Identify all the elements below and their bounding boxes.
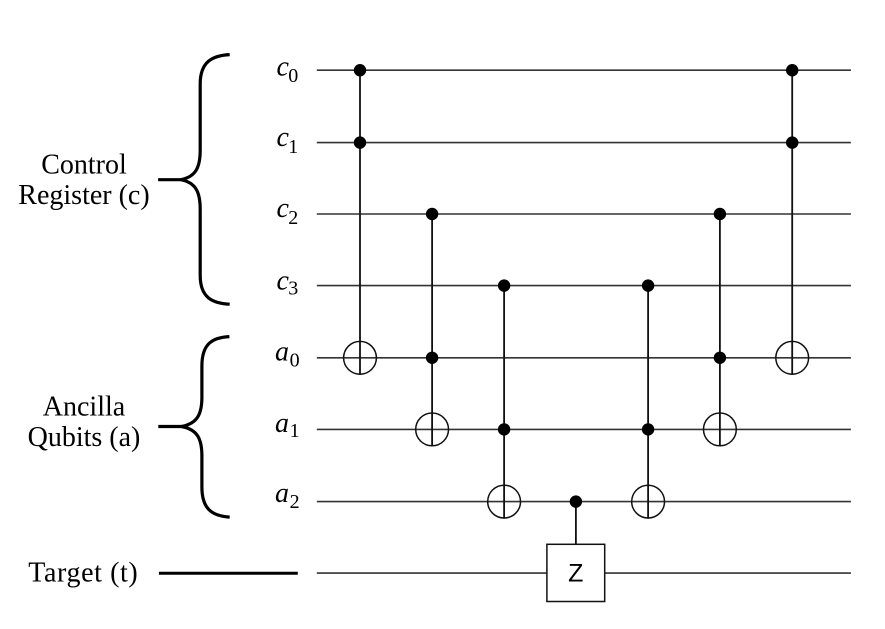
- gate Toffoli G7 vertical line: [791, 70, 793, 375]
- wire a2: [317, 501, 851, 503]
- brace control register: [181, 55, 230, 305]
- wire c0: [317, 69, 851, 71]
- gate G3 control dot on a1: [498, 423, 510, 435]
- brace ancilla qubits: [182, 337, 230, 517]
- gate G6 control dot on c2: [714, 208, 726, 220]
- svg-text:Qubits (a): Qubits (a): [28, 422, 141, 453]
- gate CZ G4 vertical line: [575, 502, 577, 545]
- gate G7 control dot on c0: [786, 64, 798, 76]
- gate G7 control dot on c1: [786, 136, 798, 148]
- gate G2 control dot on c2: [426, 208, 438, 220]
- gate Toffoli G3 vertical line: [503, 286, 505, 519]
- gate G5 control dot on a1: [642, 423, 654, 435]
- gate G1 target oplus on a0: [344, 341, 377, 374]
- label c2: [277, 193, 299, 229]
- gate G3 control dot on c3: [498, 279, 510, 291]
- label c3: [277, 265, 299, 299]
- svg-text:a: a: [275, 478, 289, 509]
- gate Toffoli G5 vertical line: [647, 286, 649, 519]
- gate G2 control dot on a0: [426, 352, 438, 364]
- svg-text:0: 0: [290, 349, 300, 371]
- gate G1 control dot on c1: [354, 136, 366, 148]
- gate G5 control dot on c3: [642, 279, 654, 291]
- svg-text:Z: Z: [568, 560, 583, 588]
- svg-text:Ancilla: Ancilla: [43, 391, 126, 422]
- wire c3: [317, 285, 851, 287]
- gate Toffoli G2 vertical line: [431, 214, 433, 447]
- gate G2 target oplus on a1: [416, 413, 449, 446]
- svg-text:a: a: [275, 337, 289, 368]
- lead line target: [159, 572, 298, 575]
- svg-text:1: 1: [288, 136, 298, 158]
- gate Toffoli G6 vertical line: [719, 214, 721, 447]
- wire c1: [317, 142, 851, 144]
- wire a0: [317, 357, 851, 359]
- wire c2: [317, 213, 851, 215]
- gate G1 control dot on c0: [354, 64, 366, 76]
- svg-text:2: 2: [288, 207, 298, 229]
- wire t: [317, 572, 851, 574]
- gate G6 control dot on a0: [714, 352, 726, 364]
- gate G4 control dot on a2: [570, 495, 582, 507]
- label c0: [277, 52, 299, 87]
- gate G7 target oplus on a0: [776, 341, 809, 374]
- lead line ancilla: [158, 425, 182, 428]
- gate G6 target oplus on a1: [704, 413, 737, 446]
- svg-text:Target (t): Target (t): [28, 558, 138, 589]
- label c1: [277, 122, 299, 158]
- label a1: [275, 408, 300, 442]
- gate G3 target oplus on a2: [488, 485, 521, 518]
- svg-text:Register (c): Register (c): [18, 180, 149, 211]
- wire a1: [317, 428, 851, 430]
- lead line control: [158, 178, 182, 181]
- svg-text:3: 3: [288, 277, 298, 299]
- svg-text:Control: Control: [41, 150, 127, 181]
- svg-text:a: a: [275, 408, 289, 439]
- gate G4 Z box on t: [547, 544, 605, 601]
- svg-text:1: 1: [290, 420, 300, 442]
- gate Toffoli G1 vertical line: [359, 70, 361, 375]
- label a0: [275, 337, 300, 372]
- svg-text:2: 2: [290, 491, 300, 513]
- gate G5 target oplus on a2: [632, 485, 665, 518]
- svg-text:0: 0: [288, 65, 298, 87]
- label a2: [275, 478, 300, 513]
